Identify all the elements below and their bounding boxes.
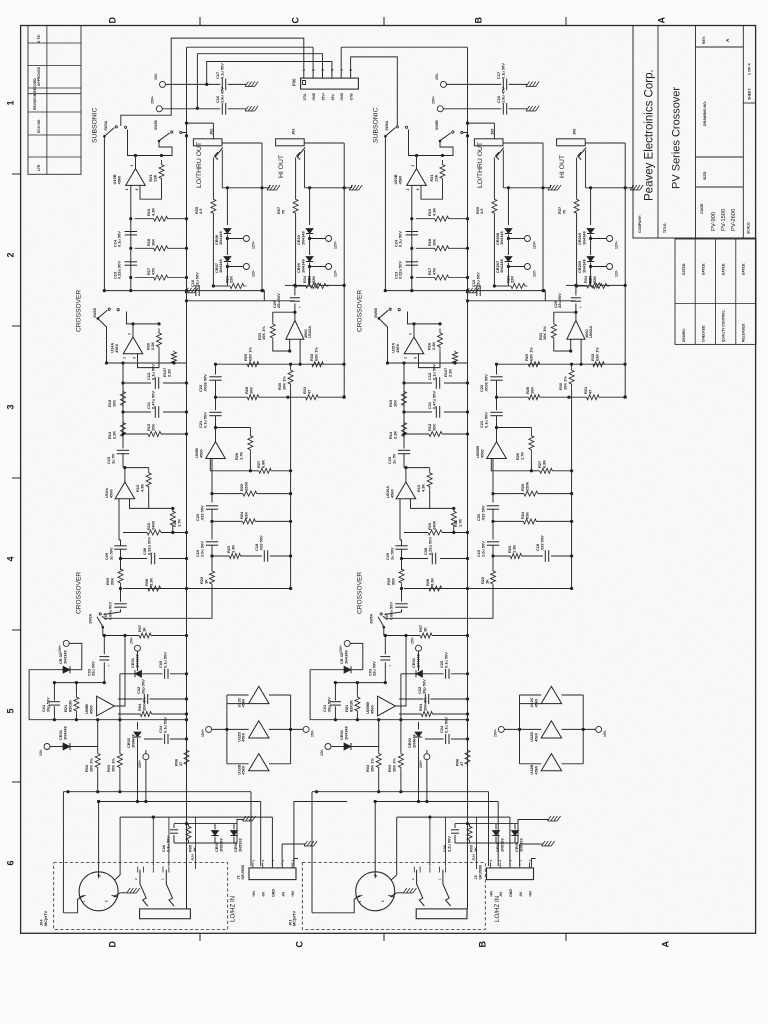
capacitor C22	[490, 376, 502, 378]
resistor R16 feedback	[157, 328, 162, 351]
svg-text:6: 6	[133, 357, 137, 359]
svg-text:12V+: 12V+	[532, 241, 536, 249]
svg-text:SHEET:: SHEET:	[748, 88, 752, 100]
svg-text:1K: 1K	[422, 627, 427, 632]
svg-text:10K 1%: 10K 1%	[369, 758, 374, 772]
jack tip contact	[579, 148, 587, 157]
wire 15V- line	[447, 83, 502, 85]
svg-text:1N4148: 1N4148	[581, 231, 586, 245]
svg-text:DATED:: DATED:	[742, 263, 746, 275]
svg-text:15V+: 15V+	[138, 760, 142, 768]
test point 15V+ U08B	[424, 754, 430, 760]
wire module loop vertical	[542, 143, 544, 291]
capacitor C09	[395, 545, 407, 547]
capacitor C16 bypass	[502, 103, 504, 115]
wire left feed	[311, 792, 313, 913]
wire bus to C25	[263, 291, 265, 301]
svg-text:4560: 4560	[198, 449, 203, 458]
test point 15V- top	[160, 81, 166, 87]
svg-text:B: B	[474, 17, 484, 24]
svg-text:70: 70	[280, 210, 285, 214]
test point 15V- buffer	[303, 726, 309, 732]
svg-text:15V+: 15V+	[322, 92, 326, 100]
capacitor C13	[125, 261, 137, 263]
svg-text:CROSSOVER: CROSSOVER	[76, 290, 83, 332]
svg-text:CODE: CODE	[700, 203, 704, 214]
wire rail A	[186, 47, 188, 909]
SRJ pin -IN	[262, 863, 264, 868]
wire feedback U102A	[273, 312, 295, 322]
svg-text:4560: 4560	[397, 176, 402, 185]
diode CR08	[226, 188, 228, 225]
jack ring wire	[585, 150, 587, 188]
svg-text:4.3K: 4.3K	[431, 208, 436, 216]
test point 15V+ buffer	[206, 726, 212, 732]
wire U102A noninv input	[299, 339, 301, 364]
resistor R11	[452, 507, 455, 510]
svg-text:COMPANY:: COMPANY:	[638, 215, 642, 233]
resistor R09	[118, 566, 123, 586]
signature block	[675, 239, 756, 344]
svg-text:-IN: -IN	[519, 892, 523, 897]
junction right rail	[343, 284, 346, 287]
svg-text:1: 1	[82, 900, 86, 902]
svg-text:22K: 22K	[587, 276, 592, 283]
wire U08B output	[114, 636, 125, 707]
wire subsonic switch drop	[103, 136, 105, 290]
wire P30 pin1 to SW3A throw	[121, 38, 304, 126]
resistor R107	[454, 351, 456, 352]
test point 13V- column	[325, 744, 331, 750]
svg-text:1.3K: 1.3K	[230, 545, 235, 553]
zone tick marks left border	[12, 173, 21, 175]
svg-text:62K 1%: 62K 1%	[313, 347, 318, 361]
wire gnd stub	[519, 844, 521, 866]
svg-text:1N4148: 1N4148	[62, 650, 67, 664]
wire feedback top	[417, 155, 443, 157]
test point 15V- U08B	[135, 645, 141, 651]
svg-text:39p 50V: 39p 50V	[326, 697, 331, 712]
svg-text:0.1u 50V: 0.1u 50V	[117, 231, 122, 247]
svg-text:0.1u 50V: 0.1u 50V	[162, 652, 167, 668]
P30 pin 1 GTA	[303, 73, 305, 79]
svg-text:CROSSOVER: CROSSOVER	[357, 290, 364, 332]
test point 12V+	[508, 238, 524, 240]
SRJ pin GND	[509, 863, 511, 868]
XLR connector circle	[79, 872, 118, 911]
svg-text:GND: GND	[312, 92, 316, 100]
wire P30 pin4 to 15V- line	[207, 62, 332, 85]
resistor R19	[416, 216, 468, 221]
svg-text:1 OF 4: 1 OF 4	[748, 63, 752, 75]
svg-text:22u 50V: 22u 50V	[91, 661, 96, 676]
test point 12V-	[227, 266, 243, 268]
resistor R12	[429, 432, 442, 437]
resistor R21 82K	[75, 683, 77, 694]
connector SRJ50B	[487, 868, 534, 880]
wire module loop top	[304, 142, 344, 144]
resistor R29	[247, 362, 258, 367]
resistor R06 in rail	[465, 749, 470, 767]
svg-text:47: 47	[306, 390, 311, 394]
capacitor C12	[435, 377, 437, 389]
wire chain to SW2A throw	[102, 584, 212, 618]
capacitor C01 39p	[53, 683, 55, 701]
SRJ pin +IN	[489, 863, 491, 868]
ground near module	[630, 185, 634, 190]
svg-text:4560: 4560	[114, 344, 119, 353]
resistor bias	[494, 285, 508, 287]
wire subsonic chain	[411, 185, 413, 290]
resistor R107	[173, 351, 175, 352]
connector J02	[193, 139, 222, 146]
svg-text:10K 1%: 10K 1%	[141, 697, 146, 711]
capacitor C10 electrolytic	[466, 288, 470, 293]
svg-text:4: 4	[6, 556, 16, 561]
wire column inner top	[54, 682, 104, 684]
svg-text:2.2K: 2.2K	[111, 431, 116, 439]
svg-text:4560: 4560	[533, 766, 538, 775]
op-amp U09B	[487, 442, 507, 459]
svg-text:DATED:: DATED:	[682, 263, 686, 275]
wire buffer left rail	[519, 695, 521, 764]
svg-text:0.1u 50V: 0.1u 50V	[219, 63, 224, 79]
svg-text:1N5393: 1N5393	[218, 838, 223, 852]
capacitor C15	[117, 449, 129, 451]
svg-text:SUBSONIC: SUBSONIC	[373, 107, 380, 143]
svg-text:.0036 50V: .0036 50V	[202, 374, 207, 392]
svg-text:1N4148: 1N4148	[218, 231, 223, 245]
wire subsonic chain	[130, 185, 132, 290]
svg-text:+IN: +IN	[291, 891, 295, 897]
resistor R28	[528, 395, 540, 400]
wire bus to C25	[544, 291, 546, 301]
svg-text:SW3B: SW3B	[154, 120, 158, 130]
resistor R29	[528, 362, 540, 367]
wire U102A noninv input	[580, 339, 582, 364]
svg-text:22u 50V: 22u 50V	[372, 661, 377, 676]
diode CR09	[306, 257, 313, 262]
svg-text:4560: 4560	[241, 766, 246, 775]
svg-text:1.7K: 1.7K	[519, 452, 524, 460]
resistor R22	[491, 571, 496, 584]
svg-text:+IN: +IN	[529, 891, 533, 897]
svg-text:70: 70	[561, 210, 566, 214]
svg-text:SW3A: SW3A	[104, 120, 108, 130]
wire jack feed	[468, 122, 495, 124]
svg-text:3: 3	[130, 165, 134, 167]
test point 15V+ buffer	[498, 726, 504, 732]
svg-text:1N4148: 1N4148	[218, 259, 223, 273]
svg-text:4560: 4560	[395, 344, 400, 353]
capacitor C15	[398, 449, 410, 451]
svg-text:47: 47	[459, 762, 464, 766]
P30 pin 3 15V+	[322, 73, 324, 79]
svg-text:LO/HZ IN: LO/HZ IN	[494, 896, 501, 922]
capacitor C20	[487, 505, 499, 507]
wire XLR pin3 to ground	[115, 893, 121, 897]
wire to lower bus	[576, 214, 578, 286]
wire filter top left	[107, 362, 187, 364]
capacitor C18	[544, 550, 546, 562]
test point 15V+ top	[156, 106, 162, 112]
svg-text:10K 1%: 10K 1%	[261, 326, 266, 340]
svg-text:4560: 4560	[116, 176, 121, 185]
wire column left leg	[309, 670, 311, 720]
diode CR210	[590, 188, 592, 225]
svg-text:0.22u 50V: 0.22u 50V	[117, 261, 122, 279]
svg-text:0.22u 50V: 0.22u 50V	[427, 537, 432, 555]
resistor R124	[242, 519, 255, 524]
test point 15V+ U08B	[143, 754, 149, 760]
wire filter left chain	[403, 363, 405, 449]
op-amp U19B	[126, 169, 146, 186]
diode CR101 horizontal	[416, 670, 423, 677]
svg-text:J02: J02	[209, 129, 213, 135]
switch SW2A	[99, 613, 101, 615]
ground near module	[349, 185, 353, 190]
svg-text:4560: 4560	[479, 449, 484, 458]
wire feedback bottom	[138, 351, 160, 367]
svg-text:10K: 10K	[248, 387, 253, 394]
ground 15V+ bypass	[526, 106, 530, 111]
resistor R25	[523, 491, 538, 496]
svg-text:22K: 22K	[306, 276, 311, 283]
wire XLR pin1 loop	[312, 896, 359, 913]
capacitor C04	[164, 734, 166, 744]
wire right chain	[496, 364, 498, 374]
svg-text:1.7K: 1.7K	[457, 519, 462, 527]
svg-text:SIZE:: SIZE:	[703, 171, 707, 180]
wire module loop vertical	[261, 143, 263, 291]
wire U10A input chain	[118, 499, 120, 540]
wire module loop top	[585, 142, 625, 144]
op-amp U20B	[407, 169, 427, 186]
test point 15V- U08B	[416, 645, 422, 651]
svg-text:4560: 4560	[533, 733, 538, 742]
jack contact 2	[443, 870, 451, 906]
op-amp U08B	[378, 696, 396, 716]
test point 13V+ column	[344, 640, 350, 646]
wire link J1 to channel B bus	[294, 802, 347, 867]
svg-text:-IN: -IN	[281, 892, 285, 897]
test point 12V-	[508, 266, 524, 268]
svg-text:DATED:: DATED:	[702, 263, 706, 275]
wire pin2 drop	[396, 817, 398, 875]
svg-text:22K: 22K	[592, 276, 597, 283]
svg-text:1u 5V: 1u 5V	[110, 453, 115, 464]
capacitor C21	[490, 411, 502, 413]
svg-text:4.3K: 4.3K	[420, 484, 425, 492]
svg-text:4560: 4560	[533, 699, 538, 708]
resistor bias	[213, 285, 227, 287]
switch SW3B subsonic	[158, 140, 161, 143]
SRJ pin -IN	[281, 863, 283, 868]
wire module bottom	[586, 187, 626, 189]
wire hi module bus	[566, 284, 576, 286]
svg-text:10K: 10K	[150, 424, 155, 431]
wire filter top left	[388, 362, 468, 364]
svg-text:.033 50V: .033 50V	[539, 535, 544, 551]
wire buffer bottom link	[227, 763, 249, 765]
diode CR10	[309, 188, 311, 225]
wire buffer top link	[520, 694, 542, 696]
svg-text:1N4648: 1N4648	[411, 734, 416, 748]
svg-text:10K 1%: 10K 1%	[88, 758, 93, 772]
resistor R32	[593, 362, 604, 367]
input bus 3	[397, 816, 510, 818]
svg-text:J06: J06	[573, 129, 577, 135]
svg-text:6: 6	[135, 188, 139, 190]
test point 12V+	[227, 238, 243, 240]
svg-text:SW2B: SW2B	[93, 308, 97, 318]
svg-text:SW5A: SW5A	[370, 613, 374, 623]
capacitor C03 electrolytic	[384, 636, 386, 655]
svg-text:CROSSOVER: CROSSOVER	[357, 572, 364, 614]
resistor R16 feedback	[438, 328, 443, 351]
wire buffer mid link	[504, 728, 541, 730]
svg-text:GND: GND	[340, 92, 344, 100]
resistor R07	[420, 633, 432, 638]
svg-text:10K 1%: 10K 1%	[542, 326, 547, 340]
svg-text:1N4148: 1N4148	[415, 654, 420, 668]
capacitor C09	[114, 545, 126, 547]
svg-text:TITLE:: TITLE:	[663, 222, 667, 233]
svg-text:1N4148: 1N4148	[343, 726, 348, 740]
clamp cluster bottom	[174, 842, 237, 844]
svg-text:0.68u 50V: 0.68u 50V	[388, 602, 393, 620]
diode CR208	[507, 188, 509, 225]
svg-text:6: 6	[416, 188, 420, 190]
connector J05	[474, 139, 503, 146]
SRJ pin +IN	[529, 863, 531, 868]
wire SW2A drop	[383, 627, 385, 635]
wire opamp output to switch	[127, 312, 134, 324]
op-amp U10A	[396, 482, 416, 499]
diode CR105	[495, 824, 497, 830]
op-amp U15A	[404, 337, 424, 354]
svg-text:DRAWING NO:: DRAWING NO:	[703, 101, 707, 126]
resistor R12	[148, 432, 161, 437]
wire SW2A drop	[102, 627, 104, 635]
input bus 2	[99, 801, 261, 803]
resistor R30	[288, 364, 293, 390]
wire rail C	[290, 471, 292, 589]
wire feedback bottom	[140, 183, 162, 199]
svg-text:15V+: 15V+	[494, 729, 498, 737]
svg-text:1K: 1K	[473, 847, 478, 852]
wire rail A into jack	[467, 863, 469, 909]
svg-text:4: 4	[330, 69, 334, 71]
svg-text:SW6A: SW6A	[385, 120, 389, 130]
diode CR03	[137, 722, 139, 730]
svg-text:2.2K: 2.2K	[166, 369, 171, 377]
wire feedback bottom	[419, 351, 441, 367]
svg-text:10K 1%: 10K 1%	[562, 376, 567, 390]
diode CR106	[233, 824, 235, 830]
wire feedback top	[133, 323, 159, 325]
svg-text:39p 50V: 39p 50V	[45, 697, 50, 712]
svg-text:3: 3	[321, 69, 325, 71]
wire to lower bus	[212, 214, 214, 286]
svg-text:12V+: 12V+	[615, 241, 619, 249]
svg-text:240K: 240K	[150, 521, 155, 530]
svg-text:0.1u 50V: 0.1u 50V	[431, 364, 436, 380]
wire op-amp output	[135, 156, 137, 169]
wire op-amp output	[413, 324, 415, 337]
svg-text:1N4148: 1N4148	[300, 231, 305, 245]
svg-text:J03: J03	[292, 129, 296, 135]
svg-text:47K: 47K	[431, 268, 436, 275]
wire pin stub	[476, 817, 478, 869]
wire chain to SW2A	[104, 609, 121, 614]
svg-text:10K: 10K	[431, 239, 436, 246]
svg-text:10K 1%: 10K 1%	[391, 758, 396, 772]
P30 pin 4 15V-	[331, 73, 333, 79]
wire crossover switch drop	[98, 318, 107, 363]
wire column inner top	[335, 682, 385, 684]
resistor R26	[529, 428, 534, 459]
resistor R30	[569, 364, 574, 390]
svg-text:15V+: 15V+	[151, 96, 155, 104]
svg-text:GND: GND	[272, 889, 276, 897]
svg-text:1N4148: 1N4148	[62, 726, 67, 740]
svg-text:PV-1500: PV-1500	[721, 209, 727, 231]
SRJ pin +IN	[252, 863, 254, 868]
resistor R15	[121, 389, 126, 408]
wire diode mid	[507, 235, 509, 256]
jack tip contact	[298, 148, 306, 157]
wire 15V+ line	[443, 108, 501, 110]
resistor R02	[97, 720, 99, 751]
svg-text:LTR: LTR	[37, 164, 41, 171]
SRJ pin +IN	[291, 863, 293, 868]
svg-text:+IN: +IN	[252, 891, 256, 897]
svg-text:MC)HTV: MC)HTV	[292, 910, 297, 926]
svg-text:1N5393: 1N5393	[518, 838, 523, 852]
capacitor C11	[435, 406, 437, 418]
wire U09B input chain	[211, 459, 213, 503]
SRJ pin -IN	[519, 863, 521, 868]
ground 15V- bypass	[526, 82, 530, 87]
wire feedback U09B	[216, 427, 251, 429]
zone tick marks top border	[199, 17, 201, 26]
resistor R105	[467, 824, 472, 843]
svg-text:U102A: U102A	[307, 326, 312, 338]
wire filter left chain	[122, 363, 124, 449]
wire lower node	[384, 635, 420, 637]
svg-text:0.68u 50V: 0.68u 50V	[107, 602, 112, 620]
input bus 3	[120, 816, 272, 818]
svg-text:+IN: +IN	[489, 891, 493, 897]
svg-text:22K: 22K	[510, 276, 515, 283]
svg-text:C: C	[295, 941, 305, 948]
wire 15V- line	[166, 83, 221, 85]
ground SRJ	[542, 841, 546, 846]
ground clamp cluster	[548, 816, 552, 821]
svg-text:62K 1%: 62K 1%	[528, 347, 533, 361]
svg-text:6: 6	[6, 860, 16, 865]
svg-text:2: 2	[312, 69, 316, 71]
wire right chain	[215, 364, 217, 374]
svg-text:2.2u 50V: 2.2u 50V	[446, 836, 451, 852]
switch SW2B crossover	[97, 317, 100, 320]
svg-text:GTB: GTB	[350, 93, 354, 101]
wire 15V+ line	[162, 108, 220, 110]
capacitor C25 electrolytic	[575, 285, 577, 295]
resistor R21 feedback	[440, 160, 445, 183]
ground SRJ	[304, 841, 308, 846]
